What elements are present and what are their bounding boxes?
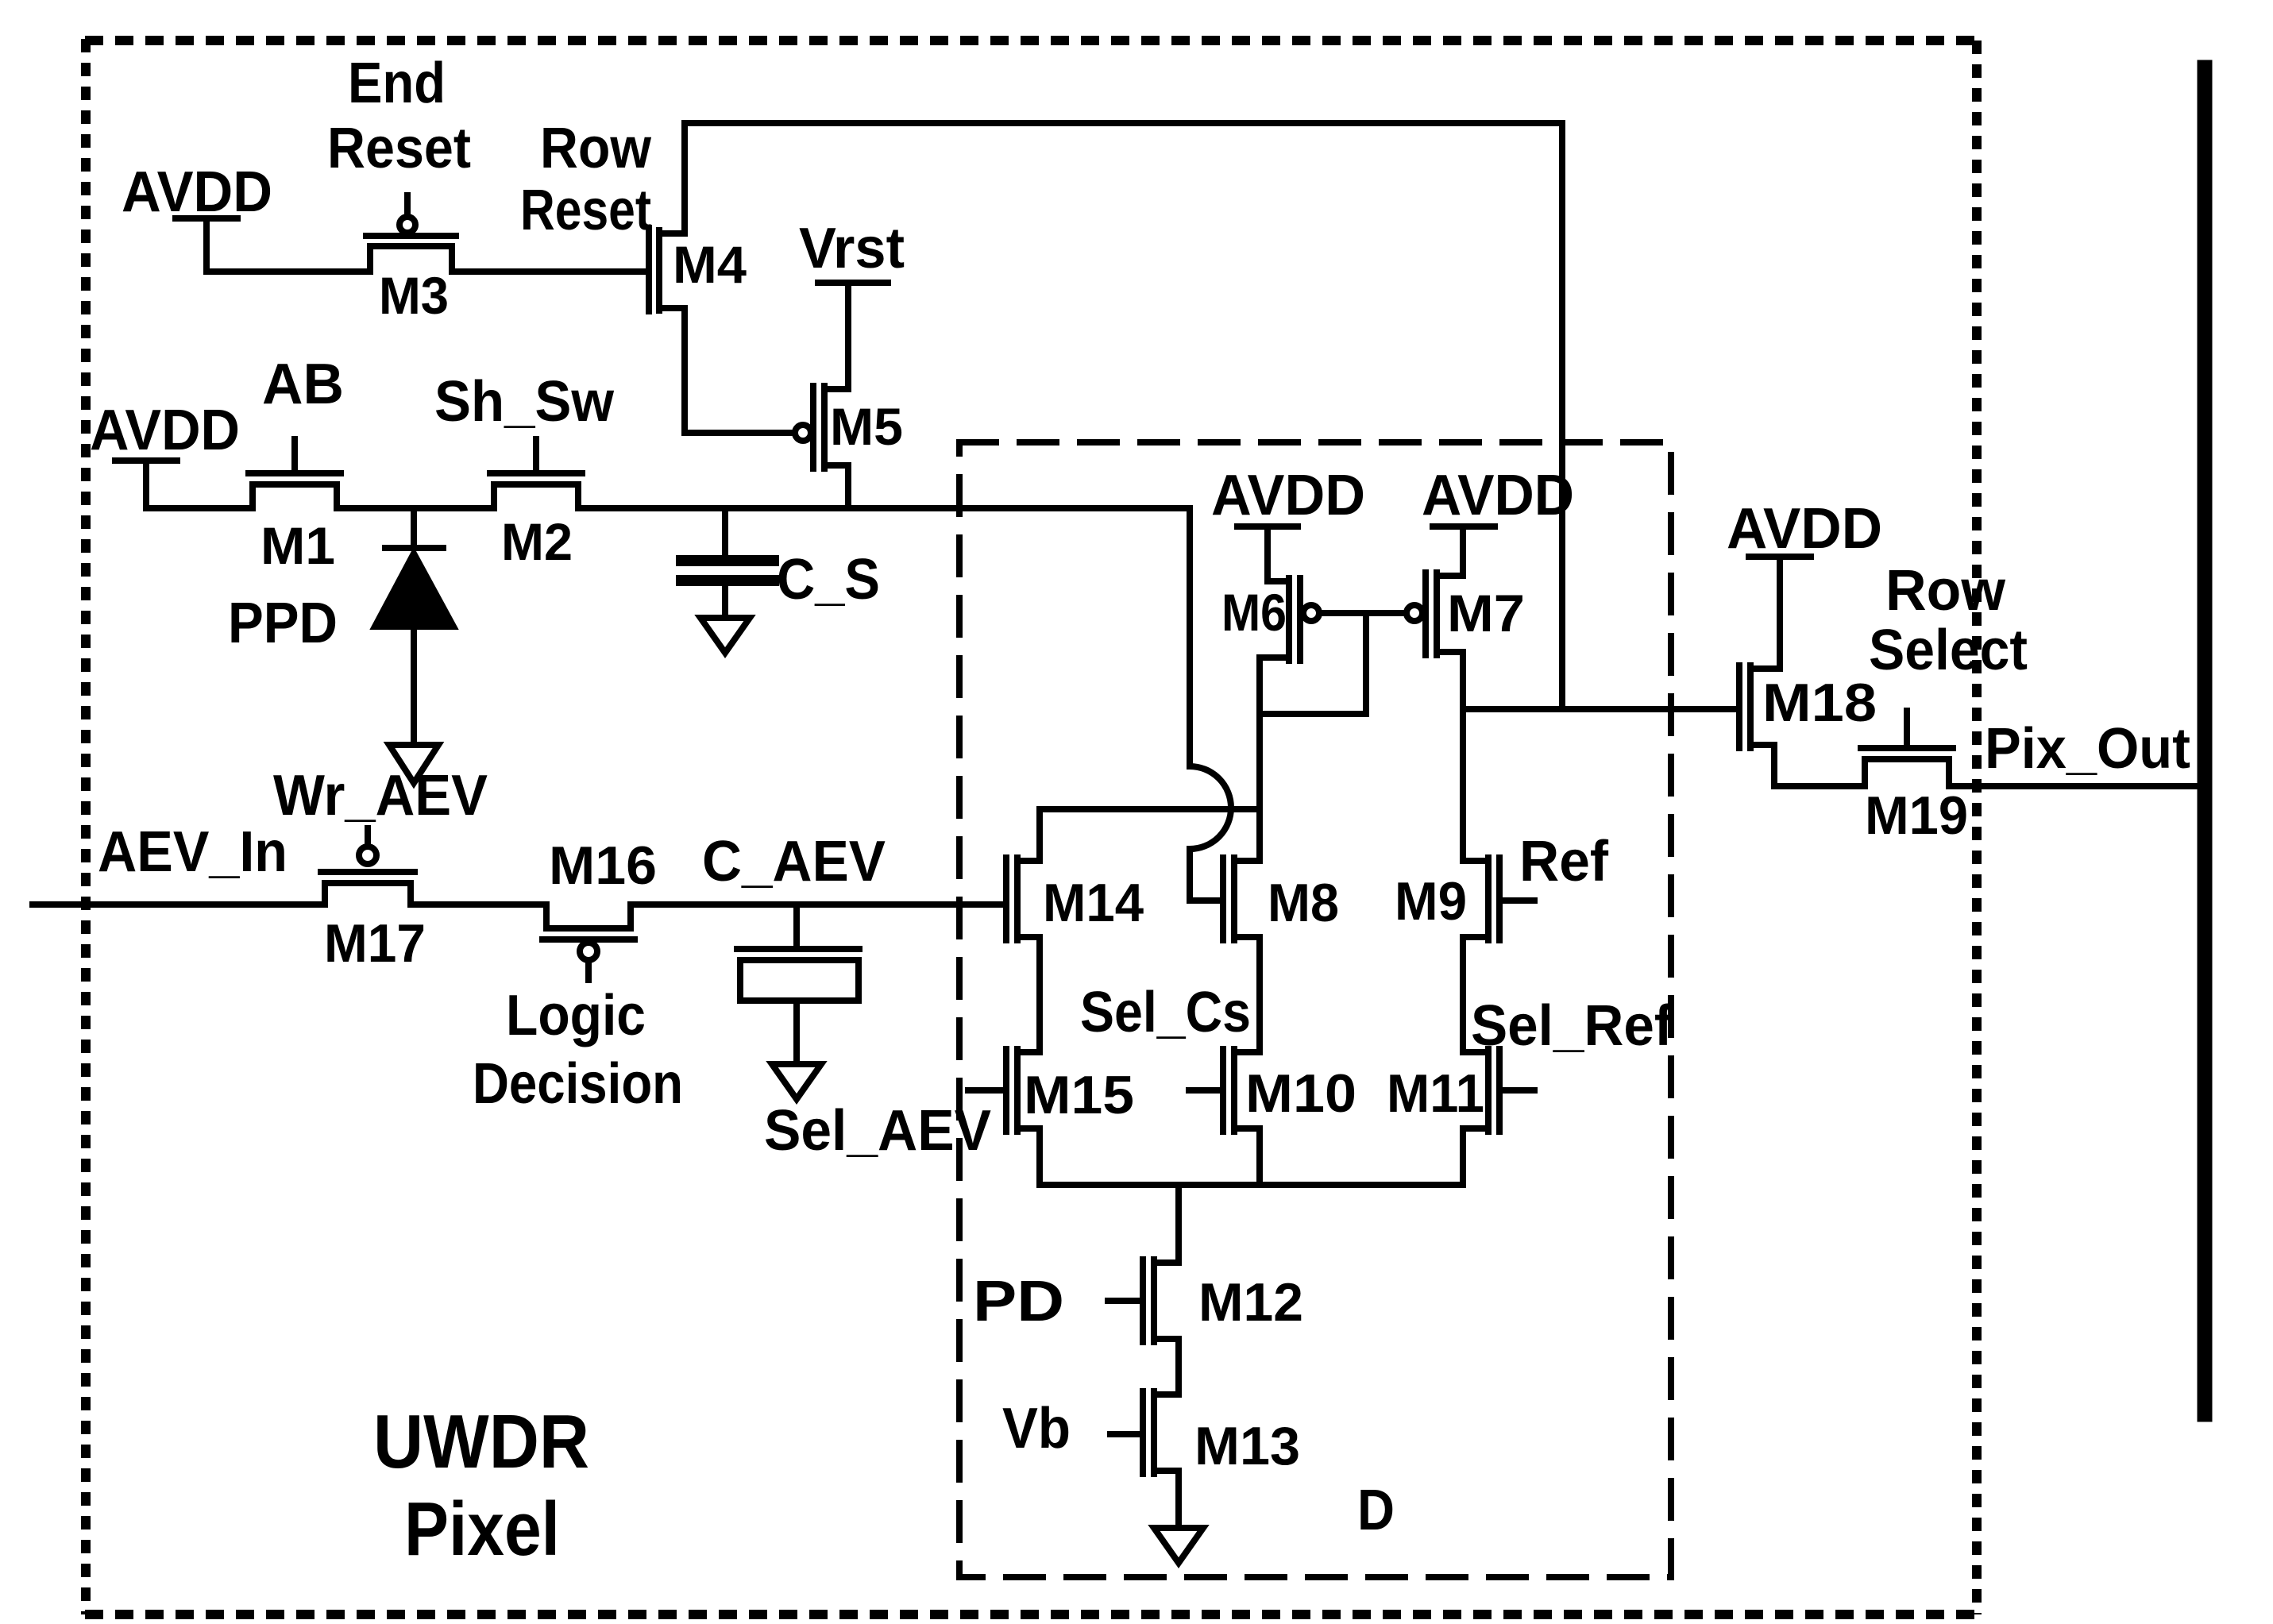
svg-text:Logic: Logic [506,984,646,1047]
svg-text:C_S: C_S [777,548,880,611]
svg-text:Pixel: Pixel [404,1487,560,1572]
svg-text:Vrst: Vrst [799,217,905,280]
ground below M13 [1154,1528,1203,1563]
svg-text:AVDD: AVDD [1211,464,1365,527]
svg-text:M1: M1 [260,516,335,575]
svg-text:M13: M13 [1194,1416,1300,1476]
supply AVDD (for M7) [1433,527,1495,573]
svg-text:M11: M11 [1387,1063,1484,1124]
transistor M19 (row select NMOS) [1861,711,1953,786]
supply AVDD (left, for M1) [115,461,177,508]
svg-text:UWDR: UWDR [373,1399,589,1484]
transistor M1 (AB anti-blooming NMOS) [249,439,341,508]
wire comparator output to M18 gate [1463,706,1736,712]
svg-text:M14: M14 [1043,873,1144,933]
svg-text:Sel_AEV: Sel_AEV [764,1099,991,1163]
svg-text:AVDD: AVDD [1422,464,1574,527]
wire M3 drain to M4 gate [452,268,646,275]
wire M14 drain to M8 drain [1040,806,1260,812]
transistor M14 (AEV input NMOS) [1006,809,1040,1052]
svg-text:AVDD: AVDD [122,160,272,224]
wire M18 source to M19 [1774,783,1865,789]
svg-text:AEV_In: AEV_In [98,820,288,884]
svg-text:M9: M9 [1395,871,1467,932]
ground below C_S [700,618,750,653]
svg-text:M10: M10 [1245,1063,1356,1124]
wire storage node vertical with crossover hop to M8 gate [1190,508,1231,901]
wire M4 source to M5 gate [685,430,794,436]
svg-text:End: End [348,52,446,115]
svg-text:M16: M16 [549,835,657,896]
svg-text:M12: M12 [1198,1272,1303,1333]
wire rail to M12 [1175,1185,1182,1263]
transistor M6 (PMOS mirror, diode-connected) [1260,578,1319,714]
transistor M2 (Sh_Sw NMOS) [490,439,582,508]
wire storage node from M2 to comparator input [578,505,1190,511]
svg-text:PD: PD [973,1270,1064,1333]
transistor M17 (Wr_AEV PMOS) [321,828,415,905]
svg-text:M5: M5 [830,397,903,456]
transistor M12 (PD power-down NMOS) [1108,1259,1179,1394]
transistor M11 (Sel_Ref NMOS) [1463,1049,1534,1185]
svg-text:Decision: Decision [473,1052,683,1116]
outer pixel boundary bottom (dotted) [85,1610,1977,1619]
wire M17 to M16 [411,901,546,908]
wire AVDD to M3 source [206,268,370,275]
transistor M13 (Vb bias NMOS) [1110,1391,1179,1528]
svg-text:Vb: Vb [1002,1397,1071,1460]
svg-text:PPD: PPD [228,592,338,655]
svg-text:M4: M4 [673,235,747,294]
photodiode PPD [375,508,453,745]
comparator block D boundary (dashed box) [959,442,1671,1577]
transistor M10 (Sel_Cs NMOS) [1189,1049,1260,1185]
svg-text:Ref: Ref [1519,830,1609,893]
svg-text:M19: M19 [1865,785,1968,846]
svg-text:M17: M17 [324,913,426,974]
svg-text:M6: M6 [1221,583,1287,642]
svg-text:Select: Select [1869,619,2028,682]
ground below C_AEV [772,1064,821,1099]
outer pixel boundary left (dotted) [81,39,91,1614]
supply AVDD (for M6) [1237,527,1298,578]
svg-text:D: D [1357,1479,1395,1542]
svg-text:M8: M8 [1268,873,1339,933]
wire Pix_Out to column bus [1949,783,2205,789]
wire M6 drain to mirror gates [1260,613,1366,714]
transistor M15 (Sel_AEV NMOS) [968,1049,1040,1185]
ground below PPD [389,745,438,783]
svg-text:AB: AB [262,353,344,416]
wire AVDD to M1 source [146,505,253,511]
svg-text:M3: M3 [379,266,449,325]
svg-text:AVDD: AVDD [1727,497,1882,561]
capacitor C_S [681,508,774,618]
wire M1 to M2 (photodiode node) [337,505,494,511]
supply AVDD (for M18) [1749,554,1811,560]
supply AVDD (top left, for M3) [176,218,237,272]
transistor M5 (PMOS, Vrst switch) [795,286,848,508]
transistor M3 (PMOS switch) [366,195,456,272]
svg-text:Sh_Sw: Sh_Sw [434,370,615,434]
wire mirror gate to gate [1320,610,1406,616]
svg-text:Row: Row [1885,559,2006,623]
svg-text:Row: Row [540,117,652,180]
svg-text:M15: M15 [1024,1065,1134,1125]
svg-text:Sel_Cs: Sel_Cs [1080,981,1251,1044]
wire differential pair tail rail [1040,1182,1463,1188]
svg-text:Wr_AEV: Wr_AEV [273,764,488,827]
transistor M4 (row reset NMOS) [649,123,685,433]
svg-text:Reset: Reset [520,179,651,242]
transistor M8 (storage node input NMOS) [1223,714,1260,1052]
svg-text:C_AEV: C_AEV [702,830,886,893]
svg-text:AVDD: AVDD [90,399,240,462]
svg-text:Pix_Out: Pix_Out [1985,717,2190,781]
wire AEV_In input row [33,901,325,908]
svg-text:M2: M2 [501,512,573,571]
transistor M9 (Ref input NMOS) [1463,858,1534,1052]
transistor M7 (PMOS mirror output) [1407,573,1463,861]
wire M4 drain to comparator output (top feedback) [685,123,1562,709]
svg-text:Reset: Reset [327,117,471,180]
supply Vrst bar [818,280,888,286]
outer pixel boundary right (dotted) [1972,41,1982,1614]
capacitor C_AEV (MOS cap) [737,905,859,1064]
wire M16 to C_AEV node and M14 gate [631,901,1003,908]
transistor M16 (logic decision PMOS, inverted) [542,905,635,980]
outer pixel boundary top (dotted) [85,36,1977,45]
svg-text:M7: M7 [1447,584,1525,642]
svg-text:Sel_Ref: Sel_Ref [1471,994,1673,1058]
column output bus [2198,68,2213,1414]
svg-text:M18: M18 [1762,673,1877,733]
transistor M18 (source follower NMOS) [1739,557,1780,786]
